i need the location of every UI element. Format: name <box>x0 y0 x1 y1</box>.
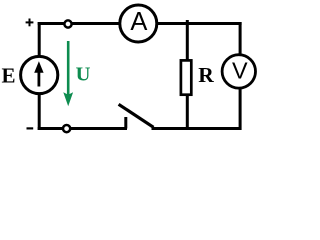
wire resistor branch lower <box>186 93 189 130</box>
switch S1 blade <box>119 104 154 127</box>
terminal top <box>64 20 71 27</box>
svg-text:A: A <box>130 8 147 36</box>
wire left rail <box>38 22 41 58</box>
voltage arrow U <box>67 41 70 96</box>
resistor R body <box>181 60 191 94</box>
ammeter A1 circle <box>120 5 157 42</box>
wire left rail lower <box>38 92 41 130</box>
wire right rail <box>239 22 242 130</box>
plus sign <box>26 21 34 23</box>
source E arrow <box>38 71 41 87</box>
svg-text:V: V <box>232 58 248 84</box>
svg-text:R: R <box>198 63 214 87</box>
wire bottom right segment <box>152 127 242 130</box>
voltmeter V1 circle <box>222 55 255 88</box>
switch S1 fixed contact stub <box>124 117 127 129</box>
minus sign <box>27 127 34 129</box>
wire resistor branch upper <box>186 20 189 62</box>
svg-text:U: U <box>76 63 91 85</box>
wire bottom left segment <box>38 127 127 130</box>
source E circle <box>21 56 58 93</box>
wire top horizontal <box>38 22 242 25</box>
svg-text:E: E <box>2 63 16 87</box>
terminal bottom <box>63 125 70 132</box>
